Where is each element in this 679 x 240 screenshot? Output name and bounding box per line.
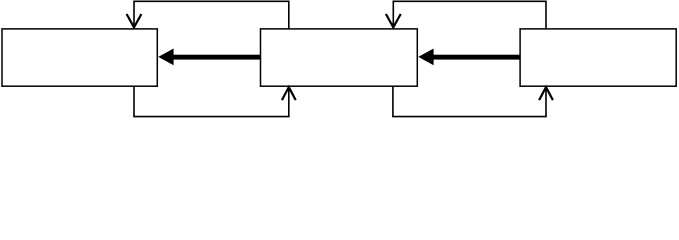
arrowhead down into middle box top xyxy=(386,14,401,27)
arrowhead down into left box top xyxy=(127,14,142,27)
top feedback wire middle box to left box xyxy=(134,1,289,29)
box middle xyxy=(261,29,418,86)
box right xyxy=(520,29,676,86)
arrowhead up into middle box bottom xyxy=(282,87,296,100)
thick arrow middle box to left box xyxy=(158,49,260,66)
box left xyxy=(2,29,157,86)
thick arrow right box to middle box xyxy=(418,49,520,66)
bottom wire left box to middle box xyxy=(134,86,289,116)
top feedback wire right box to middle box xyxy=(393,1,546,29)
arrowhead up into right box bottom xyxy=(539,87,553,100)
bottom wire middle box to right box xyxy=(393,86,546,116)
